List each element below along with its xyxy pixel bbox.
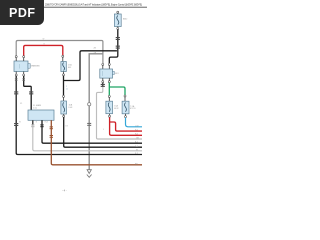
- wire: green relay output: [108, 83, 110, 96]
- wire: comp1 left output down to bottom bus: [16, 76, 142, 155]
- svg-text:EFI: EFI: [68, 67, 72, 69]
- title underline: [44, 6, 147, 9]
- connector: [31, 124, 34, 127]
- component: fusible link box (wide): [28, 110, 54, 120]
- component: ignition switch (top-left blue box): [14, 61, 30, 72]
- connectors on right wire: [22, 78, 25, 80]
- wire: grey B+ feed horizontal: [16, 41, 103, 64]
- ground symbol: [87, 170, 92, 178]
- svg-text:J1: J1: [20, 103, 23, 105]
- wire: cyan from F4: [126, 118, 143, 127]
- wire code labels on feeds: [43, 39, 46, 46]
- svg-text:W: W: [19, 121, 21, 123]
- wire: F1 output tee: [63, 76, 65, 96]
- svg-text:W: W: [136, 149, 138, 151]
- connector IH2 on right wire: [29, 91, 33, 94]
- wire: F2 down to bus: [64, 117, 142, 147]
- connectors on AM2 wire: [116, 37, 120, 40]
- wire: red staircase from F3: [110, 117, 142, 135]
- label: page ref 1J: [66, 86, 68, 91]
- svg-text:2.0L: 2.0L: [33, 107, 38, 109]
- component: fuse F3 (bottom left of pair): [106, 101, 113, 114]
- wire: box output black: [42, 120, 142, 143]
- pin below F1: [63, 72, 65, 75]
- pins: ignition switch top: [15, 57, 17, 61]
- relay bottom pins: [102, 78, 104, 81]
- connector on brown output upper: [50, 126, 53, 129]
- component: fuse F1 (mid-left vertical): [62, 55, 64, 57]
- svg-text:EFI2: EFI2: [114, 108, 119, 110]
- right edge labels: [135, 125, 139, 165]
- svg-text:5: 5: [103, 129, 104, 131]
- svg-text:R-B: R-B: [45, 121, 49, 123]
- connector IK4 on left wire: [14, 123, 18, 126]
- pin into F2: [63, 95, 65, 97]
- component: fuse AM2 (top right): [117, 11, 119, 13]
- connector on black output: [40, 124, 43, 127]
- wire: box output brown: [51, 120, 142, 165]
- svg-text:2006 TOYOTA CAMRY (EWD533U) 5: 2006 TOYOTA CAMRY (EWD533U) 5 A/T and A/…: [45, 3, 142, 6]
- wire: relay left output (light grey) to bus: [97, 83, 143, 139]
- PDF badge: [0, 0, 44, 25]
- connector IH1 on left wire: [14, 91, 18, 94]
- svg-text:B-3: B-3: [135, 153, 138, 155]
- connector on relay output: [101, 84, 105, 87]
- wire: grey branch to ground: [89, 54, 103, 170]
- pin below AM2: [117, 27, 119, 28]
- svg-text:L-W: L-W: [135, 125, 139, 127]
- svg-text:R-1: R-1: [135, 129, 138, 131]
- svg-text:IGNITION SW: IGNITION SW: [31, 66, 40, 68]
- connectors on left wire: [15, 78, 18, 80]
- connector on brown output lower: [50, 135, 53, 138]
- svg-text:1J: 1J: [66, 89, 68, 91]
- component: fuse F2: [61, 101, 67, 114]
- pins: ignition switch bottom: [15, 74, 17, 76]
- node: open circle junction: [88, 103, 91, 106]
- svg-text:2: 2: [66, 86, 67, 88]
- wire: AM2 down to relay: [109, 30, 118, 64]
- connector on ground wire: [87, 123, 91, 126]
- svg-text:2B: 2B: [94, 47, 97, 49]
- component: fuse F4 (bottom right of pair): [122, 101, 129, 114]
- svg-text:AM2: AM2: [123, 18, 128, 21]
- svg-text:IG: IG: [66, 126, 69, 128]
- pins below F3 F4: [108, 114, 110, 116]
- labels above connectors: [19, 121, 49, 123]
- svg-text:B-1: B-1: [135, 142, 138, 144]
- svg-text:- 4 -: - 4 -: [62, 188, 67, 192]
- wire: box output white/grey: [33, 120, 142, 151]
- svg-text:EFI: EFI: [115, 73, 119, 75]
- svg-text:B: B: [36, 121, 38, 123]
- svg-text:B-2: B-2: [135, 146, 138, 148]
- svg-text:R-2: R-2: [135, 134, 138, 136]
- connector 2 on AM2 wire: [116, 46, 120, 49]
- component: EFI relay: [102, 63, 104, 65]
- svg-text:ETCS: ETCS: [130, 108, 136, 110]
- svg-text:IGN: IGN: [69, 107, 73, 109]
- F2 output pin: [63, 114, 65, 115]
- wire: comp1 right output jog into fusible link box: [24, 76, 32, 110]
- wire: red B+ feed: [24, 45, 63, 56]
